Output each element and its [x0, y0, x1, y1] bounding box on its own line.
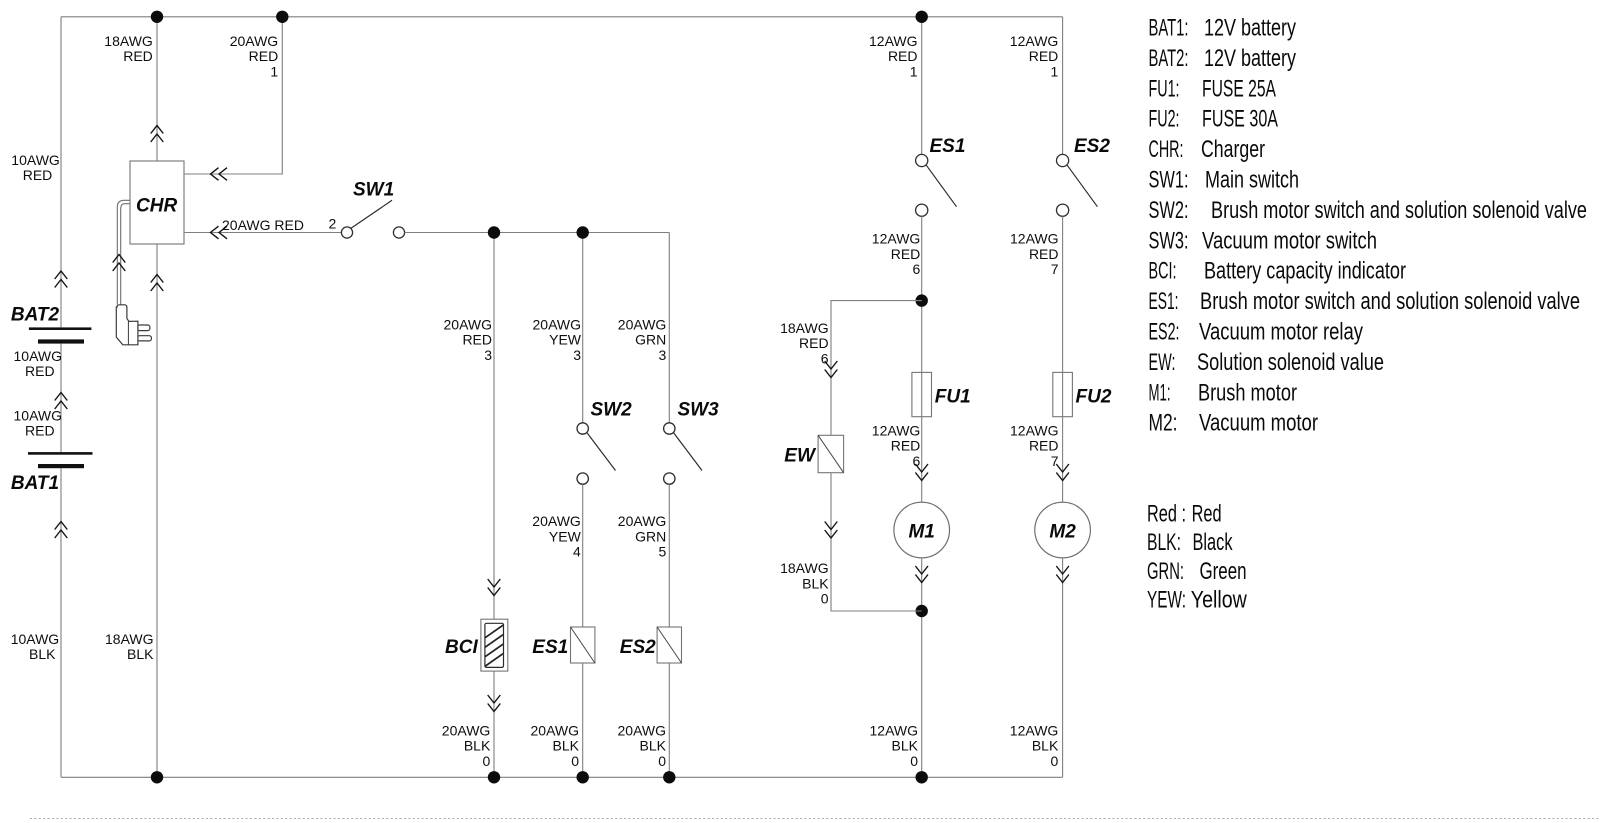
node mid rail at BCI branch	[488, 226, 500, 238]
svg-text:SW1: SW1	[353, 179, 394, 200]
svg-text:CHR: CHR	[136, 196, 177, 217]
node bottom rail at ES2	[663, 771, 675, 783]
charger CHR box	[130, 161, 184, 244]
arrow down below EW	[825, 522, 838, 539]
arrow left into CHR pin2	[211, 226, 228, 239]
node M1 bottom junction	[916, 605, 928, 617]
node brush branch split	[916, 294, 928, 306]
svg-text:BAT1:: BAT1:	[1149, 15, 1189, 42]
wire charger bottom 18AWG BLK	[156, 244, 158, 777]
svg-text:EW: EW	[784, 446, 817, 467]
arrow up charger cord	[113, 255, 126, 272]
wire FU2 to M2	[1062, 417, 1064, 503]
svg-text:FU2:: FU2:	[1149, 106, 1180, 133]
svg-text:SW3: SW3	[678, 399, 720, 420]
wire M2 to bottom rail	[1062, 558, 1064, 778]
node bottom rail at charger	[151, 771, 163, 783]
svg-text:12V battery: 12V battery	[1204, 45, 1296, 72]
svg-text:SW2: SW2	[591, 399, 633, 420]
svg-text:SW2:: SW2:	[1149, 197, 1189, 224]
arrow up left rail between batteries	[55, 393, 68, 410]
svg-text:ES1:: ES1:	[1149, 288, 1179, 315]
switch SW2	[577, 423, 616, 485]
solution solenoid EW	[818, 435, 844, 472]
svg-text:Green: Green	[1200, 558, 1247, 585]
wire charger top feed 18AWG RED	[156, 17, 158, 161]
svg-text:M2:: M2:	[1149, 410, 1178, 437]
node top rail at M1 branch	[916, 11, 928, 23]
dotted page edge line	[30, 818, 1600, 820]
node bottom rail at M1	[916, 771, 928, 783]
svg-text:BCI: BCI	[445, 637, 478, 658]
svg-text:BLK:: BLK:	[1147, 529, 1181, 556]
svg-text:FU1:: FU1:	[1149, 75, 1180, 102]
svg-text:YEW:: YEW:	[1147, 587, 1186, 614]
switch SW1	[341, 200, 404, 238]
svg-text:Brush motor: Brush motor	[1198, 379, 1297, 406]
svg-text:Vacuum motor: Vacuum motor	[1199, 410, 1318, 437]
svg-text:Battery capacity indicator: Battery capacity indicator	[1204, 258, 1406, 285]
wire M2 branch top 12AWG RED 1	[1062, 17, 1064, 155]
motor M1	[894, 502, 950, 558]
svg-text:Vacuum motor relay: Vacuum motor relay	[1199, 319, 1363, 346]
svg-text:Main switch: Main switch	[1205, 167, 1299, 194]
svg-text:FU2: FU2	[1076, 387, 1112, 408]
arrow down below M2	[1056, 566, 1069, 583]
svg-text:12V battery: 12V battery	[1204, 15, 1296, 42]
svg-text:M2: M2	[1049, 521, 1076, 542]
battery capacity indicator BCI	[481, 619, 508, 671]
relay coil ES1	[571, 627, 595, 663]
arrow up charger top wire	[151, 126, 164, 143]
svg-text:Yellow: Yellow	[1191, 587, 1248, 614]
svg-text:2: 2	[329, 216, 337, 232]
legend colour codes	[1147, 500, 1247, 613]
svg-text:BCI:: BCI:	[1149, 258, 1177, 285]
svg-text:ES1: ES1	[532, 637, 568, 658]
svg-text:Red: Red	[1192, 500, 1222, 527]
wire ES2 contact to FU2	[1062, 216, 1064, 372]
wire M1 to bottom rail	[921, 558, 923, 778]
svg-text:ES2:: ES2:	[1149, 319, 1180, 346]
wire SW2 to ES1 coil	[582, 484, 584, 627]
wire ES2 coil lower	[668, 663, 670, 777]
svg-text:EW:: EW:	[1149, 349, 1176, 376]
svg-text:SW1:: SW1:	[1149, 167, 1189, 194]
wire SW3 branch upper	[668, 233, 670, 423]
arrow left into CHR pin1	[211, 168, 228, 181]
arrow up charger bottom wire	[151, 275, 164, 292]
svg-text:FUSE 30A: FUSE 30A	[1202, 106, 1278, 133]
battery BAT2	[29, 327, 92, 343]
svg-text:CHR:: CHR:	[1149, 136, 1184, 163]
arrow down below M1	[915, 566, 928, 583]
arrow up left rail below BAT1	[55, 522, 68, 539]
arrow down below BCI	[488, 695, 501, 712]
svg-text:BAT2: BAT2	[11, 304, 60, 325]
svg-text:ES2: ES2	[1074, 136, 1110, 157]
wire BCI branch upper	[493, 233, 495, 620]
svg-text:Black: Black	[1193, 529, 1234, 556]
wire ES1 contact to FU1	[921, 216, 923, 372]
arrow down above M1	[915, 464, 928, 481]
relay contact ES2	[1057, 154, 1098, 216]
wire top rail	[61, 16, 1063, 18]
svg-text:M1:: M1:	[1149, 379, 1171, 406]
wire left rail upper segment	[60, 17, 62, 328]
relay contact ES1	[916, 154, 957, 216]
node top rail at 20AWG RED 1	[276, 11, 288, 23]
wire SW3 to ES2 coil	[668, 484, 670, 627]
node mid rail at SW2 branch	[577, 226, 589, 238]
node bottom rail at ES1	[577, 771, 589, 783]
wire EW branch top 18AWG RED 6	[831, 301, 922, 436]
wire SW2 branch upper	[582, 233, 584, 423]
fuse FU1	[912, 372, 932, 416]
mains plug	[116, 305, 151, 345]
arrow down above EW	[825, 361, 838, 378]
svg-text:20AWG RED: 20AWG RED	[222, 217, 304, 233]
arrow up left rail above BAT2	[55, 271, 68, 288]
charger cord double line	[117, 200, 130, 304]
svg-text:GRN:: GRN:	[1147, 558, 1184, 585]
legend component list	[1149, 15, 1588, 437]
svg-text:Vacuum motor switch: Vacuum motor switch	[1202, 227, 1377, 254]
fuse FU2	[1053, 372, 1073, 416]
battery BAT1	[28, 452, 93, 468]
motor M2	[1035, 502, 1091, 558]
relay coil ES2	[657, 627, 681, 663]
wire BCI branch lower	[493, 671, 495, 777]
wire left rail middle segment	[60, 344, 62, 453]
node bottom rail at BCI	[488, 771, 500, 783]
svg-text:Red :: Red :	[1147, 500, 1186, 527]
wire 20AWG RED 2 from CHR to SW1	[184, 232, 341, 234]
svg-text:FU1: FU1	[935, 387, 971, 408]
wire ES1 coil lower	[582, 663, 584, 777]
wire FU1 to M1	[921, 417, 923, 503]
svg-text:ES1: ES1	[930, 136, 966, 157]
arrow down above BCI	[488, 579, 501, 596]
svg-text:M1: M1	[908, 521, 934, 542]
wire EW branch bottom 18AWG BLK 0	[831, 473, 922, 611]
svg-text:BAT2:: BAT2:	[1149, 45, 1189, 72]
svg-text:Solution solenoid value: Solution solenoid value	[1197, 349, 1384, 376]
svg-text:FUSE 25A: FUSE 25A	[1202, 75, 1276, 102]
svg-text:ES2: ES2	[620, 637, 656, 658]
switch SW3	[664, 423, 702, 485]
wire 20AWG RED 1 from top rail to CHR	[184, 17, 282, 174]
wire M1 branch top 12AWG RED 1	[921, 17, 923, 155]
svg-text:Brush motor switch and solutio: Brush motor switch and solution solenoid…	[1200, 288, 1580, 315]
node top rail at charger	[151, 11, 163, 23]
svg-text:BAT1: BAT1	[11, 473, 59, 494]
svg-text:Brush motor switch and solutio: Brush motor switch and solution solenoid…	[1211, 197, 1587, 224]
svg-text:Charger: Charger	[1201, 136, 1265, 163]
wire mid rail from SW1 to SW3 branch	[405, 232, 670, 234]
wire bottom rail	[61, 776, 1063, 778]
svg-text:SW3:: SW3:	[1149, 227, 1189, 254]
wire left rail lower segment	[60, 468, 62, 777]
arrow down above M2	[1056, 464, 1069, 481]
